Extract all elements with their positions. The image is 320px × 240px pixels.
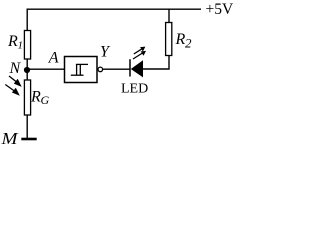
- wire node N to gate input: [27, 68, 65, 70]
- light arrow 1 onto RG: [9, 76, 22, 87]
- svg-text:2: 2: [185, 35, 192, 50]
- svg-text:LED: LED: [121, 82, 148, 97]
- LED D1: [130, 59, 143, 77]
- wire gate output to LED cathode: [103, 68, 130, 70]
- svg-text:M: M: [0, 129, 19, 145]
- wire R2 top to rail: [168, 9, 170, 22]
- photoresistor RG: [24, 80, 49, 115]
- svg-text:R: R: [175, 31, 186, 48]
- schmitt inverter U1: [65, 57, 103, 83]
- resistor R1: [7, 31, 31, 60]
- terminal M: [0, 129, 36, 148]
- wire R1 bottom to RG top through node N: [26, 59, 28, 80]
- node N: [9, 60, 31, 77]
- light arrow 2 onto RG: [5, 85, 19, 96]
- wire LED anode to R2 bottom: [143, 56, 169, 70]
- svg-text:R: R: [30, 89, 41, 106]
- svg-text:N: N: [9, 60, 22, 77]
- svg-text:G: G: [41, 93, 50, 107]
- LED emission arrow 2: [133, 51, 146, 59]
- wire top rail: [27, 9, 201, 30]
- svg-text:1: 1: [18, 40, 24, 52]
- wire RG bottom to terminal M: [26, 115, 28, 139]
- resistor R2: [166, 23, 192, 56]
- svg-text:+5V: +5V: [206, 1, 234, 18]
- LED emission arrow 1: [134, 47, 146, 54]
- svg-text:R: R: [7, 33, 18, 50]
- svg-text:A: A: [48, 50, 59, 67]
